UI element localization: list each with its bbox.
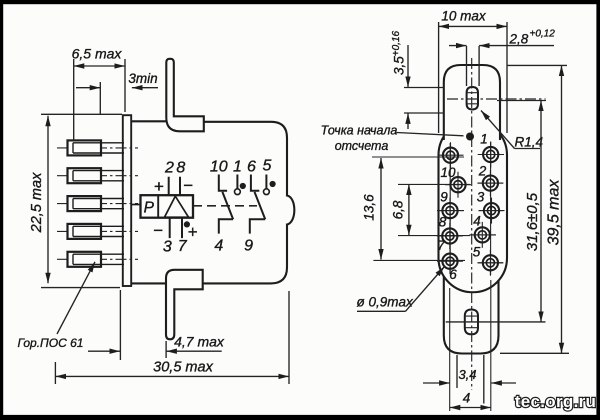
svg-text:+: + [154,177,164,196]
svg-text:7: 7 [437,238,445,253]
svg-text:ø 0,9max: ø 0,9max [357,295,415,310]
svg-text:7: 7 [178,238,188,255]
svg-text:6: 6 [449,267,457,282]
svg-text:4: 4 [463,391,471,406]
svg-text:9: 9 [244,237,253,254]
svg-text:4: 4 [473,214,481,229]
svg-text:8: 8 [176,160,185,177]
svg-text:3min: 3min [128,71,157,86]
svg-text:−: − [153,221,163,240]
svg-text:2: 2 [478,164,487,179]
svg-text:4: 4 [214,237,223,254]
svg-text:2,8: 2,8 [509,32,529,47]
svg-text:6,5 max: 6,5 max [72,46,123,62]
svg-text:P: P [144,200,155,217]
svg-text:+0,12: +0,12 [530,29,556,40]
svg-text:5: 5 [263,158,272,175]
svg-text:Точка начала: Точка начала [321,124,398,138]
svg-text:8: 8 [439,215,447,230]
svg-text:6,8: 6,8 [391,200,406,219]
svg-text:1: 1 [480,132,488,147]
svg-text:+: + [188,223,198,242]
svg-text:2: 2 [164,160,174,177]
svg-text:13,6: 13,6 [362,194,377,221]
svg-text:10 max: 10 max [441,9,487,24]
svg-text:4,7 max: 4,7 max [174,334,225,350]
svg-text:9: 9 [440,189,448,204]
svg-text:3,4: 3,4 [458,367,476,382]
svg-text:6: 6 [247,159,256,176]
svg-text:10: 10 [210,159,228,176]
svg-text:39,5 max: 39,5 max [546,179,563,246]
svg-text:22,5 max: 22,5 max [29,172,45,233]
svg-text:tec.org.ru: tec.org.ru [515,392,596,411]
svg-text:Гор.ПОС 61: Гор.ПОС 61 [18,336,84,350]
svg-text:1: 1 [233,159,242,176]
svg-text:5: 5 [473,245,481,260]
svg-text:10: 10 [440,165,456,180]
svg-text:31,6±0,5: 31,6±0,5 [524,192,541,251]
svg-text:−: − [183,176,193,195]
svg-text:3: 3 [163,238,172,255]
svg-text:отсчета: отсчета [335,139,389,153]
svg-text:R1,4: R1,4 [515,135,544,150]
svg-text:30,5 max: 30,5 max [153,360,213,376]
svg-text:3: 3 [477,190,485,205]
